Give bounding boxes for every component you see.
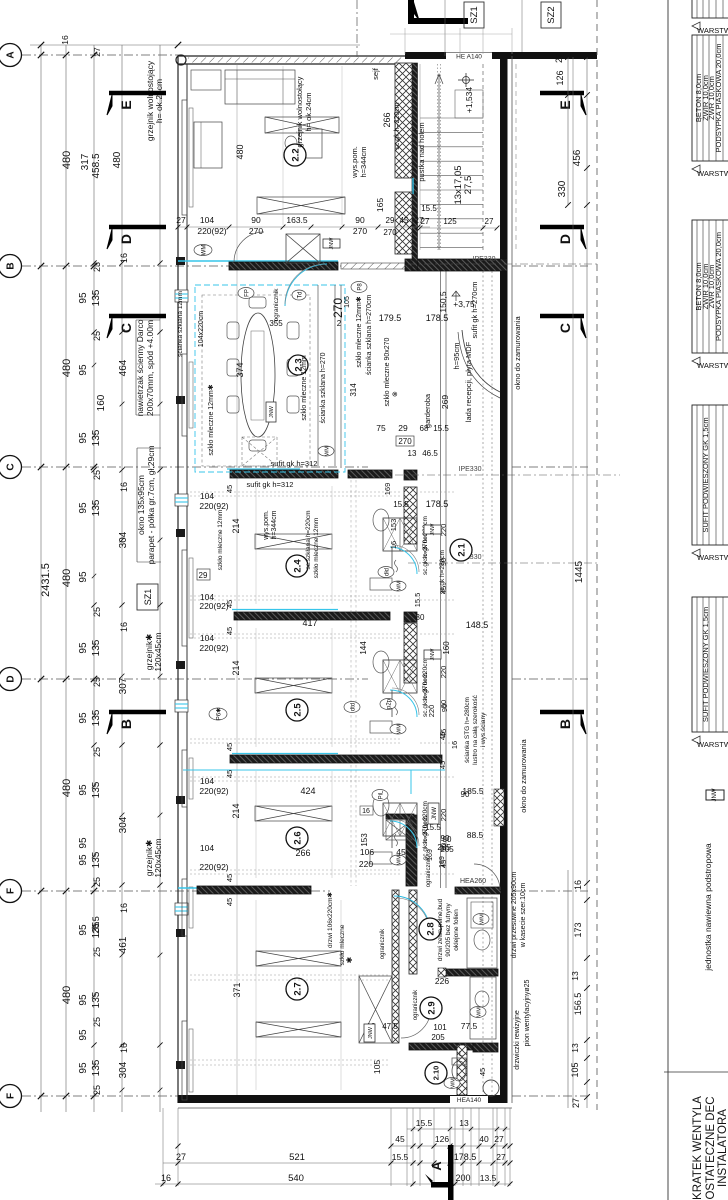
svg-text:135: 135 — [91, 991, 102, 1008]
grid axis A — [22, 54, 180, 56]
svg-text:205: 205 — [437, 843, 451, 852]
section flag D left — [109, 225, 166, 230]
svg-text:480: 480 — [61, 359, 73, 377]
svg-text:27: 27 — [571, 1098, 581, 1108]
right column divider — [667, 0, 669, 1200]
svg-text:okno 135x95cm: okno 135x95cm — [136, 475, 146, 535]
svg-text:456: 456 — [572, 149, 583, 166]
svg-text:40: 40 — [479, 1134, 489, 1144]
svg-text:p2p: p2p — [386, 698, 392, 709]
svg-text:sejf: sejf — [371, 67, 380, 80]
svg-text:220: 220 — [359, 859, 373, 869]
svg-text:160: 160 — [96, 394, 107, 411]
bathroom pod walls — [404, 487, 417, 544]
svg-text:PODSYPKA PIASKOWA 20,0cm: PODSYPKA PIASKOWA 20,0cm — [714, 44, 723, 153]
svg-text:95: 95 — [78, 712, 89, 724]
section A flag top — [408, 18, 468, 24]
svg-text:szkło mleczne 12mm: szkło mleczne 12mm — [313, 518, 320, 579]
svg-text:13: 13 — [570, 971, 580, 981]
wall band 2.9/2.10 — [409, 1043, 473, 1050]
svg-text:szkło mleczne 12mm✱: szkło mleczne 12mm✱ — [355, 296, 363, 367]
svg-text:27: 27 — [176, 215, 186, 225]
svg-text:105: 105 — [570, 1062, 580, 1077]
svg-text:45: 45 — [225, 627, 234, 635]
svg-text:45: 45 — [478, 1068, 487, 1076]
svg-text:95: 95 — [78, 784, 89, 796]
wall band room2.4/2.5 — [232, 609, 338, 611]
section flag E left — [109, 91, 166, 96]
svg-text:E: E — [118, 100, 134, 109]
section flag D right — [540, 225, 584, 230]
IPE beams — [408, 263, 597, 265]
svg-text:169: 169 — [439, 856, 446, 868]
svg-text:garderoba: garderoba — [423, 393, 432, 428]
svg-text:2: 2 — [337, 319, 342, 328]
svg-text:szkło mleczne 12mm: szkło mleczne 12mm — [301, 355, 308, 421]
svg-text:120x45cm: 120x45cm — [153, 838, 163, 877]
svg-text:26.5: 26.5 — [91, 916, 101, 934]
right exterior wall (corridor) — [500, 56, 508, 1103]
svg-text:104: 104 — [200, 491, 214, 501]
svg-text:27,5: 27,5 — [463, 176, 474, 195]
svg-text:45: 45 — [395, 1134, 405, 1144]
svg-text:521: 521 — [289, 1152, 305, 1163]
svg-text:sc.szkłana h=220cm: sc.szkłana h=220cm — [305, 510, 312, 569]
svg-text:wys.pom.: wys.pom. — [263, 510, 270, 541]
svg-text:SUFIT PODWIESZONY GK 1,5cm: SUFIT PODWIESZONY GK 1,5cm — [701, 607, 710, 722]
wall band room2.6/2.7 — [178, 887, 234, 889]
svg-text:oklejone folien: oklejone folien — [453, 909, 460, 951]
svg-text:pion wentylacyjnyø25: pion wentylacyjnyø25 — [524, 979, 531, 1046]
svg-text:WARSTW: WARSTW — [697, 553, 728, 562]
svg-text:200x70mm, spód +4.00m: 200x70mm, spód +4.00m — [145, 320, 155, 416]
svg-text:90: 90 — [461, 790, 470, 799]
svg-text:314: 314 — [349, 383, 358, 397]
svg-text:220: 220 — [439, 809, 448, 822]
svg-text:30: 30 — [416, 613, 425, 622]
svg-text:FP: FP — [244, 289, 250, 297]
svg-text:374: 374 — [235, 362, 245, 377]
svg-text:480: 480 — [61, 569, 73, 587]
door arcs band1 — [234, 232, 264, 262]
svg-text:27: 27 — [496, 1152, 506, 1162]
svg-text:101: 101 — [433, 1023, 447, 1032]
svg-text:371: 371 — [232, 982, 242, 997]
svg-text:165: 165 — [375, 198, 385, 212]
svg-text:214: 214 — [231, 803, 241, 818]
grid axis F — [22, 1095, 368, 1097]
grid axis F — [22, 890, 330, 892]
svg-text:144: 144 — [359, 641, 368, 655]
svg-text:15.5: 15.5 — [413, 593, 422, 608]
svg-text:drzwi 106x220cm✱: drzwi 106x220cm✱ — [326, 891, 334, 948]
svg-text:ścianka szklana h=270cm: ścianka szklana h=270cm — [366, 295, 373, 376]
svg-text:68: 68 — [420, 424, 429, 433]
svg-text:104: 104 — [200, 633, 214, 643]
svg-text:sufit gk h=270cm: sufit gk h=270cm — [470, 282, 479, 339]
windows left wall — [176, 257, 185, 265]
svg-text:sufit gk h=312: sufit gk h=312 — [271, 459, 318, 468]
svg-text:JNW: JNW — [269, 405, 275, 418]
svg-text:461: 461 — [118, 936, 129, 953]
left exterior wall — [177, 56, 179, 1103]
svg-text:330: 330 — [557, 180, 568, 197]
svg-text:95: 95 — [78, 571, 89, 583]
svg-text:WARSTW: WARSTW — [697, 26, 728, 35]
svg-text:KRATEK WENTYLA: KRATEK WENTYLA — [692, 1096, 704, 1200]
svg-text:F: F — [6, 888, 17, 894]
svg-text:HE A140: HE A140 — [456, 54, 482, 61]
svg-text:HEA260: HEA260 — [460, 878, 486, 885]
room 2.6 — [255, 806, 332, 821]
svg-text:95: 95 — [78, 432, 89, 444]
shaft square 2.2 — [286, 234, 320, 263]
svg-text:220(92): 220(92) — [199, 786, 228, 796]
svg-text:27: 27 — [554, 53, 564, 63]
wall band room2.2/2.3 — [178, 260, 338, 262]
svg-text:SZ2: SZ2 — [546, 6, 557, 23]
svg-text:WARSTW: WARSTW — [697, 740, 728, 749]
svg-text:220(92): 220(92) — [197, 226, 226, 236]
svg-text:E: E — [557, 100, 573, 109]
svg-text:SUFIT PODWIESZONY GK 1,5cm: SUFIT PODWIESZONY GK 1,5cm — [701, 417, 710, 532]
svg-text:160: 160 — [442, 641, 451, 655]
bottom exterior wall — [178, 1095, 507, 1103]
svg-text:156.5: 156.5 — [573, 993, 583, 1016]
svg-text:169: 169 — [383, 483, 392, 496]
svg-text:drzwiczki rewizyjne: drzwiczki rewizyjne — [514, 1010, 521, 1070]
svg-text:ogranicznik: ogranicznik — [413, 989, 419, 1020]
interior col line x=237 — [236, 64, 238, 1095]
svg-text:95: 95 — [78, 1062, 89, 1074]
svg-text:458.5: 458.5 — [91, 153, 102, 178]
svg-text:P6✱: P6✱ — [215, 708, 222, 720]
svg-text:15.5: 15.5 — [425, 823, 441, 832]
svg-text:153: 153 — [389, 519, 398, 532]
svg-text:424: 424 — [300, 786, 315, 796]
svg-text:25: 25 — [92, 607, 102, 617]
layer box — [692, 220, 728, 353]
top exterior wall — [178, 55, 405, 57]
svg-text:dtd: dtd — [350, 703, 356, 711]
svg-text:D: D — [557, 234, 573, 244]
svg-text:h= ok.24cm: h= ok.24cm — [304, 93, 313, 132]
SZ1 SZ2 top — [464, 2, 484, 28]
svg-text:120x45cm: 120x45cm — [153, 632, 163, 671]
section flag E right — [540, 91, 584, 96]
svg-text:16: 16 — [573, 880, 583, 890]
rooms 2.8 2.9 2.10 — [419, 918, 441, 940]
dimension chain lines left — [40, 45, 42, 1112]
svg-text:13: 13 — [408, 449, 417, 458]
svg-text:SZ1: SZ1 — [143, 589, 153, 606]
svg-text:95: 95 — [78, 292, 89, 304]
svg-text:90: 90 — [440, 704, 449, 712]
svg-text:45: 45 — [225, 874, 234, 882]
svg-text:okno do zamurowania: okno do zamurowania — [519, 738, 528, 812]
svg-text:106: 106 — [360, 847, 374, 857]
svg-text:266: 266 — [382, 112, 392, 127]
svg-text:214: 214 — [231, 518, 241, 533]
svg-text:45: 45 — [438, 761, 447, 769]
svg-text:15.5: 15.5 — [433, 424, 449, 433]
svg-text:ogranicznik: ogranicznik — [426, 856, 432, 887]
svg-text:104: 104 — [200, 215, 214, 225]
svg-text:B: B — [6, 262, 17, 269]
svg-text:13: 13 — [459, 1118, 469, 1128]
svg-text:417: 417 — [302, 618, 317, 628]
wall band room2.3/2.4 — [227, 468, 300, 470]
svg-text:PiL: PiL — [378, 790, 384, 799]
layer box — [692, 0, 728, 18]
svg-text:15.5: 15.5 — [393, 500, 409, 509]
svg-text:25: 25 — [92, 1085, 102, 1095]
svg-text:h=344cm: h=344cm — [271, 510, 278, 539]
svg-text:104: 104 — [200, 843, 214, 853]
svg-text:JNW: JNW — [368, 1026, 374, 1039]
svg-text:75: 75 — [376, 423, 386, 433]
svg-text:27: 27 — [92, 47, 102, 57]
svg-text:IPE330: IPE330 — [473, 256, 496, 263]
svg-text:lustro na całą szerokość: lustro na całą szerokość — [472, 694, 479, 764]
svg-text:220(92): 220(92) — [199, 501, 228, 511]
svg-text:29: 29 — [398, 423, 408, 433]
room 2.7 — [255, 900, 257, 1090]
svg-text:317: 317 — [80, 153, 91, 170]
svg-text:266: 266 — [295, 848, 310, 858]
svg-text:sc.gk h=220cm: sc.gk h=220cm — [394, 102, 401, 149]
svg-text:27: 27 — [414, 215, 424, 225]
svg-text:126: 126 — [555, 70, 565, 85]
svg-text:ścianka STG h=280cm: ścianka STG h=280cm — [464, 697, 471, 763]
svg-text:i wys.ściany: i wys.ściany — [480, 712, 487, 747]
layer box — [692, 405, 728, 545]
svg-text:D: D — [6, 675, 17, 682]
svg-text:90: 90 — [441, 834, 450, 843]
svg-text:16: 16 — [161, 1173, 171, 1183]
svg-text:307: 307 — [118, 677, 129, 694]
svg-text:Td: Td — [297, 291, 303, 298]
svg-text:pustka nad holem: pustka nad holem — [417, 122, 426, 181]
svg-text:25: 25 — [92, 1017, 102, 1027]
svg-text:270: 270 — [353, 226, 367, 236]
svg-text:480: 480 — [61, 986, 73, 1004]
svg-text:WARSTW: WARSTW — [697, 361, 728, 370]
svg-text:95: 95 — [78, 1029, 89, 1041]
svg-text:77.5: 77.5 — [461, 1021, 478, 1031]
svg-text:45: 45 — [225, 743, 234, 751]
svg-text:sc.gk h=270cm: sc.gk h=270cm — [422, 531, 429, 575]
svg-text:h=344cm: h=344cm — [359, 146, 368, 177]
svg-text:ścianka szklana h=270: ścianka szklana h=270 — [320, 352, 327, 423]
svg-text:47.5: 47.5 — [382, 1022, 398, 1031]
svg-text:2.8: 2.8 — [425, 922, 436, 935]
svg-text:304: 304 — [118, 1061, 129, 1078]
svg-text:45: 45 — [400, 216, 409, 225]
room 2.3 conference — [195, 285, 345, 472]
svg-text:WM: WM — [324, 446, 330, 456]
svg-text:D: D — [118, 234, 134, 244]
svg-text:WM: WM — [479, 914, 485, 924]
svg-text:C: C — [557, 323, 573, 333]
svg-text:16: 16 — [119, 482, 129, 492]
staircase — [420, 117, 483, 119]
svg-text:270: 270 — [331, 298, 345, 318]
svg-text:27: 27 — [176, 1152, 186, 1162]
svg-text:lada recepcji, płyta MDF: lada recepcji, płyta MDF — [464, 341, 473, 422]
svg-text:95: 95 — [78, 924, 89, 936]
room 2.4 — [255, 534, 332, 549]
svg-text:16: 16 — [119, 622, 129, 632]
layer box — [692, 597, 728, 732]
room 2.5 — [255, 678, 332, 693]
svg-text:25: 25 — [92, 470, 102, 480]
svg-text:480: 480 — [112, 151, 123, 168]
svg-text:2.4: 2.4 — [292, 559, 303, 573]
svg-text:16: 16 — [60, 35, 70, 45]
svg-text:2431.5: 2431.5 — [40, 563, 52, 597]
svg-text:L: L — [459, 1051, 463, 1058]
svg-text:szkło mleczne 12mm: szkło mleczne 12mm — [217, 510, 224, 571]
SZ1 box left — [137, 584, 158, 610]
svg-text:WM: WM — [476, 1007, 482, 1017]
svg-text:29: 29 — [199, 571, 208, 580]
svg-text:16: 16 — [119, 1043, 129, 1053]
svg-text:C: C — [118, 323, 134, 333]
svg-text:15.5: 15.5 — [421, 204, 437, 213]
svg-text:2.1: 2.1 — [456, 543, 467, 557]
svg-text:jednostka nawiewna podstropowa: jednostka nawiewna podstropowa — [703, 843, 713, 972]
svg-text:wys.pom.: wys.pom. — [350, 146, 359, 179]
svg-text:parapet - półka gr.7cm, gł.29c: parapet - półka gr.7cm, gł.29cm — [146, 445, 156, 564]
svg-text:200: 200 — [455, 1173, 470, 1183]
svg-text:grzejnik wolnostołący: grzejnik wolnostołący — [295, 76, 304, 147]
svg-text:⊗: ⊗ — [392, 391, 399, 397]
svg-text:226: 226 — [435, 976, 449, 986]
svg-text:95: 95 — [78, 994, 89, 1006]
svg-text:13: 13 — [570, 1043, 580, 1053]
svg-text:HEA140: HEA140 — [457, 1097, 482, 1104]
svg-text:95: 95 — [78, 642, 89, 654]
svg-text:16: 16 — [389, 541, 398, 549]
svg-text:105: 105 — [344, 296, 351, 308]
stair enclosure wall — [412, 63, 418, 270]
svg-text:150,5: 150,5 — [438, 291, 448, 313]
svg-text:148.5: 148.5 — [466, 620, 489, 630]
svg-text:178.5: 178.5 — [426, 313, 449, 323]
svg-text:88.5: 88.5 — [467, 830, 484, 840]
dashed site boundary — [596, 0, 598, 1110]
svg-text:IPE330: IPE330 — [459, 466, 482, 473]
svg-text:173: 173 — [573, 922, 583, 937]
svg-text:1445: 1445 — [574, 560, 585, 583]
svg-text:+1,534: +1,534 — [464, 87, 474, 114]
svg-text:220: 220 — [427, 705, 436, 718]
svg-text:2.2: 2.2 — [290, 148, 301, 161]
layer box — [692, 35, 728, 161]
svg-text:2.10: 2.10 — [432, 1066, 441, 1081]
section flag B right — [540, 710, 584, 715]
svg-text:90: 90 — [251, 215, 261, 225]
svg-text:104x220cm: 104x220cm — [198, 311, 205, 347]
section A flag bottom — [448, 1145, 454, 1200]
svg-text:WARSTW: WARSTW — [697, 169, 728, 178]
svg-text:95: 95 — [78, 837, 89, 849]
svg-text:270: 270 — [383, 228, 397, 237]
svg-text:✱: ✱ — [345, 956, 354, 963]
wall band room2.5/2.6 — [232, 753, 338, 755]
svg-text:135: 135 — [91, 851, 102, 868]
svg-text:95: 95 — [78, 502, 89, 514]
svg-text:drzwi zewn.pełne,bud: drzwi zewn.pełne,bud — [437, 898, 444, 961]
svg-text:w kasecie szer.10cm: w kasecie szer.10cm — [520, 883, 527, 949]
right dim lines — [567, 57, 569, 205]
svg-text:INSTALATORA: INSTALATORA — [717, 1109, 728, 1187]
svg-text:ogranicznik: ogranicznik — [380, 928, 386, 959]
room 2.2 — [282, 66, 284, 225]
svg-text:269: 269 — [440, 395, 450, 409]
section flag C right — [540, 314, 584, 319]
svg-text:A: A — [429, 1161, 444, 1171]
svg-text:ścianka szklana 12mm: ścianka szklana 12mm — [177, 291, 184, 357]
svg-text:45: 45 — [225, 485, 234, 493]
svg-text:480: 480 — [61, 779, 73, 797]
grid axis D — [22, 678, 368, 680]
svg-text:220(92): 220(92) — [199, 601, 228, 611]
svg-text:2.7: 2.7 — [292, 982, 303, 995]
grid axis C — [22, 466, 368, 468]
svg-text:szkło mleczne 12mm✱: szkło mleczne 12mm✱ — [207, 384, 215, 455]
svg-text:27: 27 — [485, 217, 494, 226]
grid axis B — [22, 265, 368, 267]
svg-text:16: 16 — [362, 808, 370, 815]
radiators — [182, 100, 187, 215]
svg-text:95: 95 — [78, 854, 89, 866]
svg-text:270: 270 — [398, 437, 412, 446]
section flag C left — [109, 314, 166, 319]
svg-text:F: F — [6, 1093, 17, 1099]
svg-text:105: 105 — [372, 1060, 382, 1074]
svg-text:25: 25 — [92, 947, 102, 957]
svg-text:480: 480 — [61, 151, 73, 169]
wall band 2.8/2.9 — [446, 969, 498, 976]
svg-text:16: 16 — [119, 903, 129, 913]
svg-text:25: 25 — [92, 747, 102, 757]
svg-text:540: 540 — [288, 1173, 304, 1184]
svg-text:OSTATECZNE DEC: OSTATECZNE DEC — [705, 1096, 717, 1199]
svg-text:okno do zamurowania: okno do zamurowania — [513, 315, 522, 389]
svg-text:214: 214 — [231, 660, 241, 675]
svg-text:15.5: 15.5 — [392, 1152, 409, 1162]
svg-text:h= ok.24cm: h= ok.24cm — [154, 79, 164, 123]
svg-text:B: B — [118, 719, 134, 729]
svg-text:h=95cm: h=95cm — [452, 343, 461, 370]
bottom dims — [162, 1108, 164, 1186]
svg-text:126: 126 — [435, 1134, 449, 1144]
svg-text:2.5: 2.5 — [292, 703, 303, 717]
svg-text:480: 480 — [235, 144, 245, 159]
svg-text:125: 125 — [443, 217, 457, 226]
svg-text:WM: WM — [396, 581, 402, 591]
svg-text:178.5: 178.5 — [426, 499, 449, 509]
svg-text:90/205 bez futryny: 90/205 bez futryny — [445, 903, 452, 957]
svg-text:45: 45 — [396, 847, 406, 857]
svg-text:JNW: JNW — [430, 523, 436, 536]
svg-text:16: 16 — [450, 741, 459, 749]
svg-text:JNW: JNW — [329, 237, 335, 250]
svg-text:sufit gk h=312: sufit gk h=312 — [247, 480, 294, 489]
svg-text:SZ1: SZ1 — [469, 6, 480, 23]
